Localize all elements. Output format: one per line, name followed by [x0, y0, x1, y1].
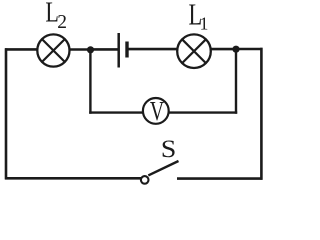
- wire: voltmeter branch right horizontal: [169, 111, 237, 113]
- wire: junction A to battery: [91, 48, 118, 51]
- battery cell: short negative plate: [125, 42, 128, 58]
- wire: bottom from switch to right corner: [177, 177, 263, 180]
- svg-text:S: S: [161, 134, 177, 162]
- wire: bottom from left corner to switch pivot: [5, 177, 141, 180]
- switch S pivot circle: [141, 176, 149, 184]
- wire: battery to lamp L1: [128, 48, 179, 51]
- svg-text:1: 1: [200, 13, 209, 33]
- wire: voltmeter branch left horizontal: [89, 111, 143, 113]
- battery cell: long positive plate: [117, 33, 120, 68]
- svg-text:V: V: [150, 96, 164, 126]
- wire: top-right from right corner to junction B: [236, 48, 263, 51]
- voltmeter V: [143, 96, 169, 126]
- lamp L1: [177, 34, 211, 68]
- wire: lamp L2 to junction A: [69, 48, 91, 51]
- wire: left edge: [5, 48, 8, 179]
- lamp L2: [37, 34, 69, 66]
- wire: top-left from lamp L2 to left corner: [5, 48, 38, 51]
- wire: right branch up to junction B: [235, 49, 237, 114]
- wire: junction B to lamp L1: [210, 48, 237, 51]
- junction B (node right of L1): [232, 46, 239, 53]
- junction A (node right of L2): [87, 46, 94, 53]
- svg-text:2: 2: [57, 12, 67, 33]
- wire: right edge: [260, 48, 263, 180]
- switch S lever (open blade): [148, 161, 178, 175]
- wire: junction A down to voltmeter branch: [89, 50, 91, 114]
